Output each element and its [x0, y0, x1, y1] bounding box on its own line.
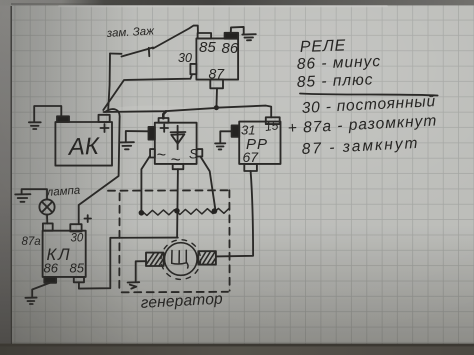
- wire switch to battery+: [108, 54, 110, 110]
- label 86: [222, 40, 239, 57]
- armature body: [165, 243, 198, 276]
- label 87: [209, 66, 226, 82]
- wire battery+ to KL 30: [79, 109, 120, 224]
- svg-text:85: 85: [199, 39, 216, 56]
- wire tap to rectifier +: [163, 111, 166, 118]
- ground (relay 86): [242, 34, 256, 40]
- photo top edge strip: [0, 0, 474, 7]
- svg-text:86 - минус: 86 - минус: [297, 53, 382, 73]
- ground (rectifier): [120, 142, 134, 149]
- PP 31 terminal: [232, 125, 240, 136]
- battery AK box: [55, 122, 112, 166]
- svg-text:15: 15: [264, 118, 279, 134]
- armature outer ring: [161, 240, 201, 280]
- photo left margin (table edge): [0, 0, 12, 355]
- right brush: [198, 251, 216, 264]
- ground (KL 86): [25, 298, 36, 304]
- relay pin 86 terminal: [225, 33, 239, 39]
- PP 67 terminal: [244, 164, 257, 171]
- label 85 (KL): [70, 261, 85, 276]
- label 15: [264, 118, 279, 134]
- legend line 30 постоянный: [301, 93, 436, 117]
- wire PP 67 to right brush: [216, 171, 253, 256]
- node junction dot: [214, 105, 219, 110]
- svg-text:85 - плюс: 85 - плюс: [297, 71, 374, 91]
- diode symbol: [171, 126, 186, 149]
- label 67: [243, 149, 260, 165]
- label 87а: [22, 236, 41, 248]
- wire node to PP 15: [216, 106, 271, 118]
- KL lamp terminal: [43, 223, 53, 230]
- wire rectifier ~bottom to field tap 2: [176, 169, 179, 237]
- wire main bus battery+ to node: [104, 108, 217, 112]
- wire battery minus to ground: [34, 106, 61, 122]
- lamp HL1: [39, 199, 54, 214]
- battery plus terminal: [99, 115, 110, 122]
- label 31: [241, 123, 255, 138]
- wire KL 86 to ground: [32, 283, 50, 298]
- legend divider line: [300, 94, 438, 96]
- tap junction dot 3: [212, 208, 218, 214]
- relay pin 87 terminal: [210, 80, 223, 89]
- rectifier ~ terminal left: [150, 149, 155, 157]
- wire left brush to frame ground: [136, 261, 146, 281]
- KL 30 terminal: [70, 224, 81, 231]
- svg-text:30: 30: [178, 51, 192, 65]
- ground (PP 31): [215, 143, 225, 149]
- svg-text:~: ~: [157, 147, 166, 164]
- wire KL 85 to generator field tap: [79, 238, 178, 289]
- wire switch to relay 85: [153, 26, 198, 49]
- wire lamp to ground: [22, 189, 47, 199]
- rectifier ~ terminal right: [197, 149, 203, 156]
- rectifier VD box: [155, 123, 197, 164]
- PP 15 terminal: [266, 117, 280, 124]
- label КЛ: [47, 246, 72, 264]
- label ~ left: [157, 147, 166, 164]
- svg-text:86: 86: [222, 40, 239, 57]
- battery minus terminal: [57, 116, 69, 122]
- label S: [189, 147, 198, 162]
- svg-text:85: 85: [70, 261, 85, 276]
- switch S1 (ignition): [110, 48, 153, 57]
- relay K1 box: [196, 38, 238, 79]
- label 30: [178, 51, 192, 65]
- label генератор: [140, 291, 223, 312]
- label + (rectifier): [161, 124, 169, 131]
- ground (lamp): [15, 194, 30, 202]
- label 85: [199, 39, 216, 56]
- label зам. Заж: [106, 25, 156, 40]
- svg-text:30: 30: [71, 233, 84, 245]
- wire PP 31 to ground: [220, 131, 231, 143]
- label РР: [246, 136, 268, 153]
- left brush: [146, 253, 164, 266]
- label ~ bottom: [171, 150, 181, 169]
- relay legend title РЕЛЕ: [300, 37, 347, 56]
- svg-text:86: 86: [44, 261, 59, 276]
- svg-text:87а: 87а: [22, 236, 41, 248]
- svg-text:~: ~: [171, 150, 181, 169]
- tap junction dot 1: [139, 210, 145, 216]
- svg-text:АК: АК: [66, 133, 101, 161]
- relay pin 85 terminal: [198, 33, 212, 38]
- legend line 86 минус: [297, 53, 382, 73]
- wire relay 30 to battery+: [103, 74, 192, 110]
- wire rectifier ~left to field tap 1: [141, 156, 150, 213]
- label 30 (KL): [71, 233, 84, 245]
- photo bottom edge strip: [0, 344, 474, 355]
- svg-text:67: 67: [243, 149, 260, 165]
- regulator PP box: [239, 122, 280, 164]
- label Щ (armature): [172, 250, 188, 268]
- tap junction dot 2: [174, 208, 180, 214]
- legend line 87a разомкнут: [287, 112, 437, 137]
- svg-text:РЕЛЕ: РЕЛЕ: [300, 37, 347, 56]
- legend line 87 замкнут: [301, 135, 420, 158]
- generator dashed housing: [108, 190, 230, 292]
- label + (battery): [101, 124, 109, 132]
- rectifier ~ terminal bottom: [173, 164, 184, 169]
- wire rectifier minus to ground: [126, 131, 149, 142]
- wire rectifier S to field tap 3: [201, 157, 216, 212]
- wire 86 to ground: [231, 27, 244, 34]
- svg-text:S: S: [189, 147, 198, 162]
- svg-text:лампа: лампа: [45, 185, 80, 199]
- wire lamp to KL: [46, 215, 48, 224]
- ground (battery): [29, 122, 41, 129]
- label 86 (KL): [44, 261, 59, 276]
- KL 85 terminal: [74, 277, 84, 282]
- wire relay 87 down to node: [216, 88, 219, 105]
- field winding: [141, 208, 229, 215]
- label АК: [66, 133, 101, 161]
- legend line 85 плюс: [297, 71, 374, 91]
- rectifier + terminal: [159, 118, 169, 123]
- svg-text:87: 87: [209, 66, 226, 82]
- frame ground arrow: [128, 282, 140, 288]
- KL 86 terminal: [44, 277, 56, 283]
- label + (KL feed): [85, 215, 92, 222]
- relay pin 30 terminal: [190, 64, 196, 74]
- label лампа: [45, 185, 80, 199]
- rectifier minus terminal: [149, 127, 155, 140]
- indicator relay KL box: [43, 231, 86, 277]
